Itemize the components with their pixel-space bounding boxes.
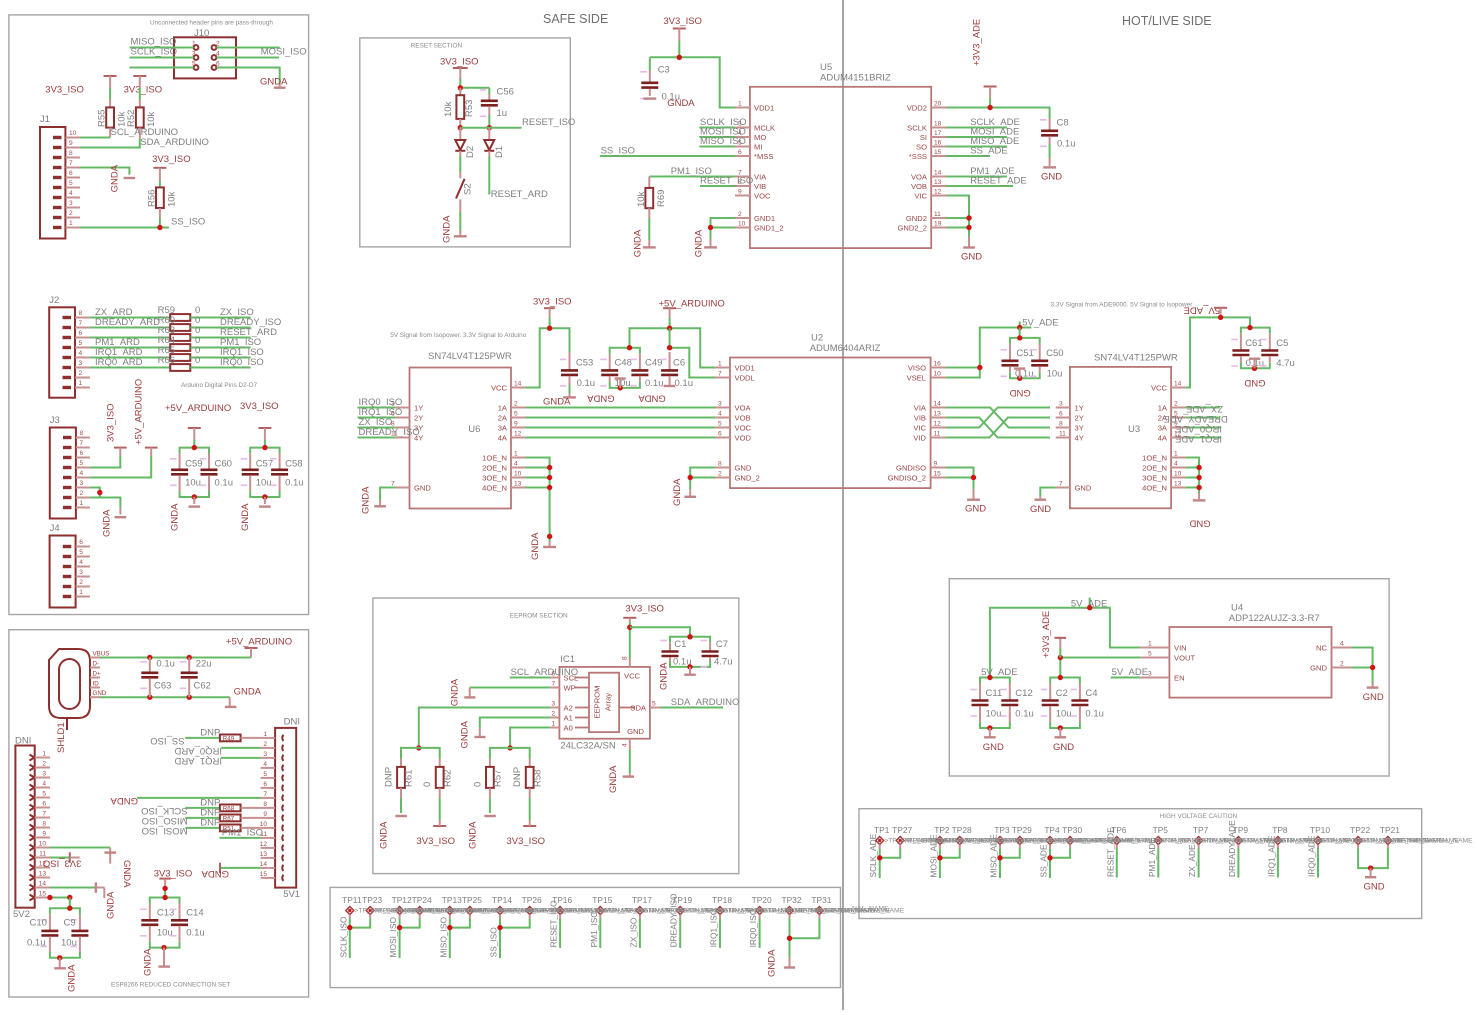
5V1 pin 13 (260, 851, 284, 861)
svg-text:13: 13 (934, 411, 942, 418)
wire R63 to RESET_ARD (190, 337, 250, 339)
svg-text:GND: GND (735, 463, 752, 472)
5V2 pin 6 (30, 801, 51, 811)
svg-text:1OE_N: 1OE_N (1142, 453, 1167, 462)
svg-text:8: 8 (263, 801, 267, 808)
wire GND2 (947, 217, 970, 219)
wire RESET_ADE testpoint (1116, 845, 1118, 849)
5V2 pin 15 (30, 891, 51, 901)
capacitor C59 10u (170, 454, 202, 491)
svg-text:C1: C1 (674, 639, 686, 650)
ground GNDA R57 (468, 816, 496, 849)
testpoint TP6 (1111, 825, 1127, 845)
svg-text:U3: U3 (1128, 424, 1140, 435)
svg-text:SI: SI (920, 133, 927, 142)
svg-text:6: 6 (216, 61, 220, 68)
svg-text:3V3_ISO: 3V3_ISO (625, 604, 664, 615)
IC1 pin 8 VCC (622, 656, 641, 681)
wire MOSI_ISO U5 (699, 136, 735, 138)
svg-text:C53: C53 (576, 358, 593, 369)
svg-text:0.1u: 0.1u (1015, 368, 1034, 379)
svg-text:TP14: TP14 (492, 895, 512, 905)
svg-text:4: 4 (216, 51, 220, 58)
wire 5V2 pin14 gnda (50, 887, 96, 889)
svg-text:GND: GND (1363, 692, 1384, 703)
junction C2 top (1058, 675, 1063, 680)
capacitor C14 0.1u (170, 904, 205, 942)
wire C61 C5 bottom rail (1241, 362, 1270, 368)
power +5V_ARDUINO J3 pin4 (133, 379, 157, 456)
svg-text:GNDA: GNDA (450, 678, 461, 706)
svg-text:15: 15 (260, 871, 268, 878)
U4 pin 2 GND (1310, 661, 1351, 673)
J1 pin 3 (53, 200, 80, 208)
svg-text:5: 5 (42, 791, 46, 798)
capacitor C8 0.1u (1040, 118, 1075, 167)
U2 pin 9 GNDISO (896, 461, 946, 473)
svg-text:1: 1 (552, 721, 556, 728)
junction VBUS C62 (187, 655, 192, 660)
svg-text:J4: J4 (50, 523, 60, 534)
junction GND2_2 (966, 225, 971, 230)
U5 pin 2 GND1 (735, 211, 775, 223)
svg-text:GNDA: GNDA (633, 229, 644, 257)
svg-text:0.1u: 0.1u (186, 927, 205, 938)
svg-text:3V3_ISO: 3V3_ISO (240, 401, 279, 412)
svg-text:VCC: VCC (624, 672, 641, 681)
svg-text:J3: J3 (50, 415, 60, 426)
testpoint TP28 (952, 825, 972, 845)
ground GNDA C10 (54, 958, 77, 992)
svg-text:VCC: VCC (491, 383, 508, 392)
wire J1 pin1 SS_ISO (80, 227, 169, 229)
wire A0 to R57 R58 (510, 728, 550, 748)
ground GNDA C48 rotated (586, 379, 625, 404)
svg-text:VSEL: VSEL (907, 373, 926, 382)
resistor R58 DNP (512, 759, 543, 820)
testpoint TP10 (1310, 825, 1330, 845)
svg-text:7: 7 (80, 440, 84, 447)
5V1 pin 11 (260, 831, 283, 841)
power 3V3_ISO R58 bottom (507, 820, 546, 847)
ground GND C8 (1041, 167, 1062, 182)
svg-text:10: 10 (514, 471, 522, 478)
buffer U3 SN74LV4T125PWR (1070, 353, 1178, 509)
ground GNDA U2 (672, 478, 696, 506)
svg-text:C63: C63 (154, 681, 171, 692)
wire C10 C9 top rail (50, 908, 80, 914)
resistor R49 DNP (200, 727, 260, 742)
svg-text:MISO_ISO: MISO_ISO (142, 815, 188, 826)
J1 pin 6 (53, 170, 80, 178)
svg-text:10: 10 (39, 841, 47, 848)
U5 pin 10 GND1_2 (735, 221, 784, 233)
svg-text:IRQ1_ARD: IRQ1_ARD (174, 755, 222, 766)
svg-text:R53: R53 (464, 100, 475, 117)
junction U3 OE2 (1196, 465, 1201, 470)
wire R57 R58 rail (490, 748, 530, 759)
wire SCLK_ISO to R68 (185, 807, 220, 809)
svg-text:3: 3 (69, 200, 73, 207)
svg-text:3V3_ISO: 3V3_ISO (440, 57, 479, 68)
U5 pin 19 GND2_2 (897, 221, 946, 233)
junction C57 bottom (262, 494, 267, 499)
wire IRQ1_ISO U6 (358, 417, 396, 419)
svg-text:10: 10 (934, 371, 942, 378)
svg-text:SDA_ARDUINO: SDA_ARDUINO (140, 137, 209, 148)
svg-text:GNDA: GNDA (143, 948, 154, 976)
capacitor C48 10u (600, 354, 632, 389)
capacitor C5 4.7u (1260, 334, 1295, 370)
svg-text:SS_ADE: SS_ADE (970, 145, 1008, 156)
svg-text:0: 0 (422, 782, 433, 787)
svg-text:+5V_ARDUINO: +5V_ARDUINO (226, 636, 292, 647)
svg-text:8: 8 (1059, 421, 1063, 428)
wire PM1_ISO U5 (649, 176, 735, 178)
svg-text:C59: C59 (185, 459, 202, 470)
wire J1 pin10 SCL_ARDUINO (80, 137, 110, 139)
switch S2 (456, 156, 474, 230)
wire VOUT to 3V3_ADE and C2 (1060, 658, 1140, 678)
svg-text:DNP: DNP (200, 817, 220, 828)
wire VISO VSEL to 5V_ADE (946, 328, 1031, 378)
svg-text:5: 5 (80, 460, 84, 467)
svg-text:Arduino Digital Pins D2-D7: Arduino Digital Pins D2-D7 (181, 382, 257, 389)
testpoint TP15 (592, 895, 612, 915)
wire VCC U6 to 3v3 (526, 328, 570, 387)
ground GND U3 (1030, 496, 1051, 515)
svg-text:3OE_N: 3OE_N (1142, 473, 1167, 482)
U2 pin 4 VOB (715, 411, 751, 423)
svg-text:0: 0 (472, 782, 483, 787)
wire PM1_ISO testpoint (599, 915, 601, 919)
wire SS_ISO U5 (600, 155, 735, 157)
svg-text:7: 7 (1059, 481, 1063, 488)
svg-text:VOC: VOC (754, 191, 771, 200)
svg-text:6: 6 (1059, 411, 1063, 418)
5V2 pin 13 (30, 871, 51, 881)
svg-text:SHLD1: SHLD1 (56, 722, 67, 753)
capacitor C4 0.1u (1070, 684, 1104, 723)
svg-text:8: 8 (718, 461, 722, 468)
svg-text:1: 1 (718, 361, 722, 368)
junction C57 top (262, 445, 267, 450)
svg-text:4: 4 (79, 559, 83, 566)
junction U3 OE3 (1196, 475, 1201, 480)
J2 pin 5 (63, 340, 90, 348)
svg-text:TP23: TP23 (362, 895, 382, 905)
ground GNDA IC1 (608, 765, 634, 793)
testpoint TP24 (412, 895, 432, 915)
svg-text:5: 5 (192, 61, 196, 68)
junction 5V_ADE wire (1087, 605, 1092, 610)
svg-text:GNDA: GNDA (67, 964, 78, 992)
op-amp U5 ADUM4151BRIZ (750, 62, 931, 248)
5V2 pin 2 (30, 761, 51, 771)
wire C6 top (669, 328, 671, 348)
svg-text:+5V_ARDUINO: +5V_ARDUINO (133, 379, 144, 445)
ground GND C2 (1053, 728, 1074, 753)
svg-text:ID: ID (93, 681, 100, 688)
svg-text:4.7u: 4.7u (714, 657, 733, 668)
power 3V3_ISO U5 (663, 16, 702, 57)
power 3V3_ISO R55 (45, 76, 116, 107)
wire SCL_ARDUINO (510, 677, 550, 679)
svg-text:10u: 10u (185, 478, 201, 489)
U5 pin 5 MI (735, 140, 762, 152)
capacitor C50 10u (1030, 344, 1063, 379)
svg-text:DNP: DNP (512, 767, 523, 787)
svg-text:10: 10 (1174, 471, 1182, 478)
svg-text:4: 4 (69, 190, 73, 197)
svg-text:RESET SECTION: RESET SECTION (411, 43, 463, 50)
wire R61 R62 rail (401, 748, 440, 759)
U5 pin 15 *SSS (909, 149, 947, 161)
testpoint TP26 (522, 895, 542, 915)
power 3V3_ISO J3 pin5 (106, 403, 127, 456)
ground GNDA J10 (260, 77, 288, 88)
J2 pin 6 (63, 330, 90, 338)
J1 pin 10 (53, 130, 80, 138)
junction C1 top (687, 634, 692, 639)
USB connector SHLD1 (49, 649, 90, 753)
wire IC1 GND down (629, 750, 631, 774)
wire MOSI_ADE (947, 136, 1008, 138)
wire EN 5V_ADE (1111, 677, 1140, 679)
junction GND2 (966, 215, 971, 220)
junction 5V_ADE U3 (1218, 315, 1223, 320)
wire PM1_ADE (947, 176, 1008, 178)
ground GNDA WP (450, 678, 476, 706)
testpoint TP12 (392, 895, 412, 915)
wire 3v3iso rail U5 (650, 57, 735, 107)
capacitor C49 0.1u (630, 354, 663, 389)
wire GNDA testpoints (789, 915, 791, 919)
wire MOSI_ADE testpoints (939, 845, 941, 849)
svg-text:GND: GND (1041, 172, 1062, 183)
svg-text:14: 14 (934, 170, 942, 177)
U6 pin 10 3OE_N (482, 471, 525, 483)
U2 pin 10 VSEL (907, 371, 946, 383)
wire GND to GNDA (100, 696, 230, 698)
wire VIC to U3 1A crossover (946, 408, 1050, 428)
connector J4 (50, 523, 76, 608)
ground GNDA ESP usb (225, 687, 262, 707)
svg-text:U5: U5 (820, 62, 832, 73)
IC1 pin 4 GND (622, 727, 645, 750)
svg-text:ADUM4151BRIZ: ADUM4151BRIZ (820, 73, 891, 84)
J4 pin 5 (63, 549, 90, 557)
svg-text:R62: R62 (442, 770, 453, 787)
wire GND pin (1352, 667, 1373, 669)
wire IRQ0_ISO testpoint (759, 915, 761, 919)
svg-text:+3V3_ADE: +3V3_ADE (1041, 611, 1052, 658)
svg-text:3: 3 (192, 51, 196, 58)
svg-text:VIB: VIB (754, 182, 766, 191)
svg-text:SO: SO (916, 142, 927, 151)
svg-text:MISO_ISO: MISO_ISO (438, 917, 448, 958)
svg-text:3V3_ISO: 3V3_ISO (417, 836, 456, 847)
svg-text:GNDA: GNDA (110, 795, 138, 806)
wire RESET_ADE (947, 185, 1014, 187)
svg-text:2: 2 (1174, 401, 1178, 408)
ground GNDA 5V1 pin14 mirrored (201, 863, 229, 879)
svg-text:3A: 3A (498, 423, 508, 432)
svg-text:TP17: TP17 (632, 895, 652, 905)
wire C57 C58 rails (250, 448, 279, 454)
SHLD1 pin D+ (90, 671, 101, 678)
5V1 pin 10 (260, 821, 284, 831)
capacitor C9 10u (61, 914, 88, 952)
U5 pin 14 VOA (911, 170, 947, 182)
svg-text:TP12: TP12 (392, 895, 412, 905)
svg-text:0.1u: 0.1u (1085, 709, 1104, 720)
wire R66 to IRQ0_ISO (190, 367, 250, 369)
IC1 pin 2 A1 (550, 711, 573, 723)
svg-text:VDDL: VDDL (735, 373, 755, 382)
svg-text:9: 9 (69, 140, 73, 147)
svg-text:R49: R49 (223, 736, 235, 743)
svg-text:MOSI_ISO: MOSI_ISO (142, 825, 188, 836)
wire J3 pin4 to +5V_ARDUINO (90, 456, 151, 478)
wire 5v to U2 VDD1 (670, 328, 715, 367)
J3 pin 2 (63, 490, 90, 498)
svg-text:MOSI_ISO: MOSI_ISO (261, 47, 307, 58)
power 3V3_ISO reset (440, 57, 479, 88)
U3 pin 9 3A (1158, 421, 1186, 433)
U3 pin 8 3Y (1056, 421, 1084, 433)
J4 pin 3 (63, 569, 90, 577)
svg-text:14: 14 (1174, 381, 1182, 388)
wire SS_ADE testpoints (1049, 845, 1051, 849)
5V2 pin 11 (30, 851, 51, 861)
svg-text:16: 16 (934, 140, 942, 147)
svg-text:3: 3 (263, 751, 267, 758)
resistor R52 10k (126, 107, 157, 138)
wire SS_ISO testpoints (499, 915, 501, 919)
svg-text:TP32: TP32 (781, 895, 801, 905)
U3 pin 3 1Y (1056, 401, 1084, 413)
junction TP2 (937, 855, 942, 860)
svg-text:EEPROM SECTION: EEPROM SECTION (510, 613, 568, 620)
wire IRQ1_ARD to R65 (90, 357, 170, 359)
svg-text:GND: GND (961, 252, 982, 263)
svg-text:2: 2 (552, 711, 556, 718)
svg-text:D+: D+ (93, 671, 101, 678)
svg-text:13: 13 (1174, 481, 1182, 488)
svg-text:SN74LV4T125PWR: SN74LV4T125PWR (1094, 353, 1178, 364)
svg-text:2: 2 (80, 490, 84, 497)
svg-text:U2: U2 (811, 333, 823, 344)
ground GNDA 5V2 pin14 (96, 882, 117, 919)
svg-text:A1: A1 (564, 713, 573, 722)
wire to J10 pin5 (130, 67, 194, 69)
ground GND testpoints (1364, 868, 1385, 892)
svg-text:SS_ISO: SS_ISO (489, 927, 499, 958)
svg-text:GND: GND (414, 483, 431, 492)
ground GND U2 right (965, 489, 986, 515)
svg-text:R68: R68 (223, 806, 235, 813)
svg-text:9: 9 (738, 189, 742, 196)
svg-text:1Y: 1Y (414, 403, 423, 412)
resistor R57 0 (472, 759, 503, 813)
5V1 pin 9 (261, 811, 284, 821)
svg-text:14: 14 (39, 881, 47, 888)
5V2 pin 7 (30, 811, 51, 821)
svg-text:GNDA: GNDA (201, 868, 229, 879)
svg-text:C8: C8 (1057, 118, 1069, 129)
capacitor C6 0.1u (660, 352, 693, 389)
junction OE3 (547, 475, 552, 480)
capacitor C13 10u (140, 904, 174, 942)
svg-text:1: 1 (1148, 641, 1152, 648)
svg-text:1A: 1A (1158, 403, 1168, 412)
svg-text:9: 9 (514, 421, 518, 428)
junction C10 top (67, 906, 72, 911)
svg-text:GND: GND (965, 504, 986, 515)
svg-text:8: 8 (79, 310, 83, 317)
svg-text:4OE_N: 4OE_N (1142, 483, 1167, 492)
J4 pin 4 (63, 559, 90, 567)
svg-text:1: 1 (192, 41, 196, 48)
svg-text:10u: 10u (1056, 709, 1072, 720)
junction C48 bottom (618, 385, 623, 390)
svg-text:1u: 1u (497, 108, 508, 119)
svg-text:VISO: VISO (908, 363, 926, 372)
svg-text:SCLK: SCLK (907, 123, 927, 132)
J3 pin 4 (63, 470, 90, 478)
5V2 pin 3 (30, 771, 51, 781)
U2 pin 6 VOD (715, 431, 751, 443)
capacitor C1 0.1u (661, 639, 692, 668)
wire J1 pin7 to GNDA (80, 168, 129, 175)
J2 pin 8 (63, 310, 90, 318)
U3 pin 13 4OE_N (1142, 481, 1186, 493)
svg-text:C57: C57 (256, 459, 273, 470)
U6 pin 6 2Y (391, 411, 423, 423)
svg-text:3V3_ISO: 3V3_ISO (533, 297, 572, 308)
testpoint TP30 (1062, 825, 1082, 845)
svg-text:2: 2 (42, 761, 46, 768)
svg-text:6: 6 (80, 450, 84, 457)
junction R57 R58 (507, 745, 512, 750)
wire DREADY_ADE testpoint (1237, 845, 1239, 849)
svg-text:3: 3 (552, 701, 556, 708)
ground GNDA U6 (361, 486, 386, 514)
5V2 pin 9 (30, 831, 51, 841)
J2 pin 2 (63, 370, 90, 378)
junction C13 top (162, 895, 167, 900)
svg-text:9: 9 (263, 811, 267, 818)
svg-text:VBUS: VBUS (93, 651, 110, 658)
U2 pin 2 GND_2 (715, 471, 760, 483)
svg-text:C62: C62 (194, 681, 211, 692)
ground GND C51 rotated (1010, 369, 1031, 398)
ground GNDA A1 (460, 720, 486, 748)
junction C51 rail bottom (1017, 376, 1022, 381)
svg-text:C12: C12 (1015, 688, 1032, 699)
testpoint TP17 (632, 895, 652, 915)
svg-text:VIB: VIB (914, 413, 926, 422)
svg-text:GND2_2: GND2_2 (897, 223, 927, 232)
svg-text:VIA: VIA (914, 403, 927, 412)
power +5V_ARDUINO ESP (226, 636, 292, 657)
testpoint TP13 (442, 895, 462, 915)
svg-text:2Y: 2Y (414, 413, 423, 422)
svg-text:6: 6 (69, 170, 73, 177)
svg-text:ZX_ADE: ZX_ADE (1186, 403, 1223, 414)
svg-text:RESET_ADE: RESET_ADE (970, 175, 1026, 186)
